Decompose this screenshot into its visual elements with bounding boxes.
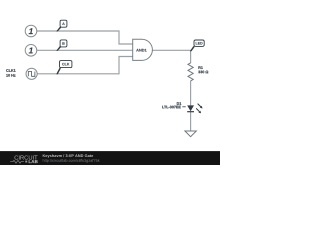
resistor R1 zigzag [188, 63, 193, 81]
AND gate AND1 body [133, 39, 153, 60]
flag CLK text [62, 63, 69, 66]
label 10 Hz [6, 74, 15, 77]
D1 emission arrow 2 [196, 108, 199, 111]
LED diode D1 triangle [187, 105, 194, 111]
D1 emission arrow 1 [198, 104, 201, 107]
flag CLK box [60, 61, 72, 68]
logic source V1 value "1" [29, 28, 33, 34]
AND gate label AND1 [136, 49, 146, 52]
clock source CLK1 circle [26, 68, 37, 79]
flag LED text [196, 42, 203, 44]
flag A box [60, 20, 67, 27]
label LTL-307EE [162, 106, 180, 109]
canvas background [0, 0, 220, 165]
clock square-wave glyph [28, 72, 35, 77]
logic source V1 circle [25, 25, 37, 37]
flag A leader [56, 27, 61, 32]
label R1 [198, 66, 202, 69]
flag CLK leader [56, 68, 61, 75]
logic source V2 circle [25, 45, 37, 57]
logo LAB [29, 160, 38, 163]
footer title [43, 154, 93, 158]
flag B box [60, 40, 67, 47]
wire B into gate input 2 [37, 49, 133, 51]
label 330 Ohm [198, 71, 208, 74]
wire gate output to LED node corner [152, 49, 190, 51]
ground symbol [185, 131, 196, 137]
wire A with step into gate input 1 [37, 31, 133, 44]
wire node down to resistor R1 [190, 50, 192, 63]
flag B text [62, 42, 64, 44]
label CLK1 [6, 69, 15, 72]
wire CLK with step into gate input 3 [37, 57, 133, 74]
footer bar [0, 151, 220, 165]
wire diode D1 to ground [190, 112, 192, 131]
logic source V2 value "1" [29, 48, 33, 54]
label D1 [177, 102, 181, 105]
flag LED leader from node [190, 46, 195, 51]
D1 cathode bar [187, 111, 194, 113]
flag A text [62, 23, 64, 25]
footer url [43, 159, 100, 163]
flag LED box [194, 40, 204, 46]
label tick to diode [182, 106, 185, 108]
wire resistor R1 to diode D1 [190, 81, 192, 106]
logo squiggle [10, 160, 24, 163]
logo CIRCUIT [15, 155, 38, 159]
logo dot [25, 161, 27, 163]
flag B leader [56, 46, 61, 51]
